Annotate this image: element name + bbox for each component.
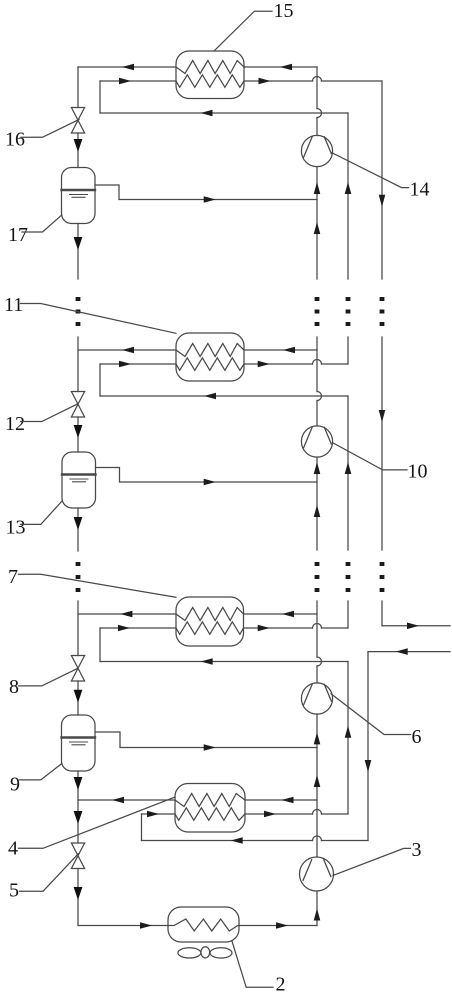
svg-text:17: 17 xyxy=(8,224,28,246)
flow arrow right xyxy=(119,78,131,85)
flow arrow left xyxy=(122,347,134,354)
svg-text:12: 12 xyxy=(5,413,25,435)
wire: interstage return line y=396 xyxy=(100,395,348,397)
break dots line x=317 xyxy=(315,297,320,326)
svg-text:4: 4 xyxy=(8,838,18,860)
flow arrow left xyxy=(204,393,216,400)
wire: tank 17 liquid outlet down xyxy=(77,224,79,280)
wire: compressor 14 discharge riser xyxy=(316,67,318,109)
wire: condensate drop to valve 16 xyxy=(77,67,79,108)
heat exchanger 4 (economizer heat exchanger) body xyxy=(175,784,245,833)
wire: valve 5 down to evaporator xyxy=(77,869,79,926)
leader line 11 xyxy=(21,304,177,334)
wire: water return line y=840.5 xyxy=(142,840,313,842)
heat exchanger 2 coil xyxy=(168,919,239,931)
heat exchanger 11 lower coil xyxy=(176,358,244,371)
flow arrow down xyxy=(74,777,83,790)
flow arrow up xyxy=(314,462,321,474)
wire: HX15 second line left xyxy=(100,80,176,82)
heat exchanger 7 upper coil xyxy=(176,608,244,621)
leader line 3 xyxy=(333,848,411,875)
wire: warm water downcomer x=382 xyxy=(381,81,383,279)
flow arrow right xyxy=(276,922,288,929)
wire: into evaporator 2 xyxy=(78,925,168,927)
wire: HX11 second line right xyxy=(244,363,313,365)
wire: x=317 from break to HX11 junction xyxy=(316,337,318,350)
leader line 2 xyxy=(232,941,273,988)
wire hop xyxy=(317,109,322,118)
svg-text:14: 14 xyxy=(410,179,430,201)
svg-text:2: 2 xyxy=(276,974,286,996)
flow arrow right xyxy=(264,811,276,818)
leader line 17 xyxy=(22,215,62,232)
heat exchanger 7 (cascade heat exchanger) body xyxy=(176,597,244,646)
wire: left line stage2 xyxy=(77,337,79,392)
leader line 4 xyxy=(19,797,176,848)
compressor 3 xyxy=(300,857,334,891)
wire hop xyxy=(313,810,322,815)
break dots left line xyxy=(76,297,81,326)
wire: left loop riser stage3 xyxy=(99,628,101,662)
flow arrow right xyxy=(204,744,216,751)
svg-text:7: 7 xyxy=(8,566,18,588)
svg-text:6: 6 xyxy=(412,726,422,748)
svg-text:5: 5 xyxy=(9,880,19,902)
flow arrow down xyxy=(74,425,83,438)
break dots line x=382 xyxy=(380,297,385,326)
flow arrow right xyxy=(258,625,270,632)
leader line 9 xyxy=(20,764,62,780)
flow arrow left xyxy=(282,611,294,618)
flow arrow left xyxy=(122,64,134,71)
wire: inlet downcomer x=368 xyxy=(367,652,369,841)
heat exchanger 15 lower coil xyxy=(176,75,244,88)
wire: downcomer to outlet xyxy=(381,601,383,626)
flow arrow left xyxy=(231,837,243,844)
wire: evaporator 2 outlet xyxy=(239,925,317,927)
wire: valve 16 to tank 17 xyxy=(77,133,79,168)
heat exchanger 4 upper coil xyxy=(175,794,245,807)
wire hop xyxy=(313,624,322,629)
heat exchanger 15 upper coil xyxy=(176,61,244,74)
flow arrow right xyxy=(147,811,159,818)
flow arrow down xyxy=(74,811,83,824)
heat exchanger 15 (cascade condenser) body xyxy=(176,51,244,99)
break dots x=382 2 xyxy=(380,562,385,592)
wire: x=348 from break to HX11 corner xyxy=(347,337,349,364)
wire: downcomer x=382 stage2 xyxy=(381,337,383,550)
svg-text:13: 13 xyxy=(6,517,26,539)
wire: compressor 6 discharge riser xyxy=(316,601,318,657)
fan of air cooler 2 xyxy=(178,947,232,958)
wire: x=348 from break to HX7 corner xyxy=(347,601,349,628)
flow arrow right xyxy=(204,479,216,486)
break dots left line 2 xyxy=(76,562,81,592)
wire: HX15 second line right xyxy=(244,80,313,82)
wire hop xyxy=(317,392,322,401)
compressor 6 xyxy=(301,683,332,714)
wire: interstage return line y=113 xyxy=(100,112,348,114)
expansion valve 16 xyxy=(71,108,84,134)
heat exchanger 2 (air evaporator) body xyxy=(168,907,239,942)
leader line 14 xyxy=(332,153,409,188)
flow arrow left xyxy=(280,64,292,71)
flow arrow down xyxy=(74,237,83,250)
flow arrow up xyxy=(314,732,321,744)
wire hop xyxy=(313,360,322,364)
svg-text:10: 10 xyxy=(408,461,428,483)
leader line 7 xyxy=(19,574,177,597)
wire: HX11 top line left xyxy=(78,349,176,351)
svg-text:8: 8 xyxy=(9,676,19,698)
flow arrow down xyxy=(365,760,372,772)
wire: HX4 second line right xyxy=(245,813,313,815)
expansion valve 8 xyxy=(71,656,84,682)
flow arrow right (outlet) xyxy=(407,623,419,630)
flow arrow left xyxy=(283,347,295,354)
leader line 6 xyxy=(331,694,411,735)
wire: left loop riser stage2 xyxy=(99,364,101,396)
wire: left line stage3 xyxy=(77,601,79,656)
wire: external inlet line xyxy=(368,651,450,653)
wire: tank 13 vapor line xyxy=(96,468,318,483)
wire: HX15 top line left xyxy=(78,66,176,68)
svg-text:11: 11 xyxy=(4,294,23,316)
flow arrow down xyxy=(74,139,83,152)
wire: interstage riser x=348 stage2 xyxy=(347,396,349,550)
wire: compressor 3 suction riser xyxy=(316,891,318,926)
wire: interstage return line y=661.5 xyxy=(100,661,348,663)
expansion valve 5 xyxy=(71,843,84,869)
flow arrow up xyxy=(345,182,352,194)
leader line 12 xyxy=(21,404,78,422)
flow arrow left xyxy=(282,797,294,804)
flow arrow down xyxy=(74,887,83,900)
heat exchanger 11 (cascade heat exchanger) body xyxy=(176,333,244,381)
flow arrow up xyxy=(314,222,321,234)
flow arrow right xyxy=(258,361,270,368)
flow arrow up xyxy=(314,775,321,787)
wire: tank 9 vapor line xyxy=(96,732,318,748)
break dots line x=348 xyxy=(346,297,351,326)
svg-text:16: 16 xyxy=(5,129,25,151)
wire: HX7 top line left xyxy=(78,613,176,615)
flow arrow right xyxy=(119,361,131,368)
heat exchanger 11 upper coil xyxy=(176,344,244,357)
flow arrow left xyxy=(112,797,124,804)
separator tank 9 xyxy=(62,715,96,771)
wire hop xyxy=(317,657,322,666)
flow arrow right xyxy=(204,196,216,203)
leader line 10 xyxy=(333,443,407,470)
wire: interstage riser x=348 stage3 xyxy=(347,662,349,815)
wire: HX7 second line right xyxy=(244,627,313,629)
wire: compressor 10 suction line xyxy=(316,457,318,550)
flow arrow right xyxy=(118,625,130,632)
separator tank 13 xyxy=(62,452,96,508)
wire: interstage riser x=348 xyxy=(347,113,349,279)
flow arrow left (inlet) xyxy=(396,648,408,655)
wire: HX4 second line left xyxy=(142,813,176,815)
heat exchanger 4 lower coil xyxy=(175,808,245,821)
flow arrow down xyxy=(74,517,83,530)
flow arrow up xyxy=(345,462,352,474)
flow arrow left xyxy=(201,658,213,665)
wire: compressor 14 suction line xyxy=(316,167,318,280)
wire: HX4 top line left xyxy=(78,799,175,801)
wire: tank 17 vapor line to compressor suction xyxy=(95,185,317,200)
expansion valve 12 xyxy=(71,392,84,418)
flow arrow left xyxy=(201,110,213,117)
flow arrow right xyxy=(140,922,152,929)
flow arrow up xyxy=(314,909,321,921)
svg-text:3: 3 xyxy=(412,839,422,861)
wire: tank 9 liquid outlet down xyxy=(77,771,79,843)
wire: compressor 10 discharge riser xyxy=(316,350,318,392)
wire: external outlet line xyxy=(382,625,450,627)
leader line 16 xyxy=(21,120,79,138)
wire: valve 8 to tank 9 xyxy=(77,681,79,715)
wire: HX7 second line left xyxy=(100,627,176,629)
flow arrow right xyxy=(259,78,271,85)
leader line 13 xyxy=(21,501,63,525)
leader line 15 xyxy=(215,11,272,50)
flow arrow up xyxy=(314,182,321,194)
wire: left loop riser stage1 xyxy=(99,81,101,113)
leader line 8 xyxy=(19,669,78,686)
flow arrow down xyxy=(379,195,386,207)
leader line 5 xyxy=(20,854,79,891)
wire: HX7 top line right xyxy=(244,613,318,615)
break dots x=348 2 xyxy=(346,562,351,592)
wire: compressor 6 suction / compressor 3 discharge line xyxy=(316,714,318,857)
wire: HX11 second line left xyxy=(100,363,176,365)
svg-text:15: 15 xyxy=(274,0,294,22)
svg-text:9: 9 xyxy=(10,774,20,796)
flow arrow left xyxy=(120,611,132,618)
separator tank 17 xyxy=(62,168,96,224)
wire: HX4 top line right xyxy=(245,799,317,801)
flow arrow down xyxy=(379,410,386,422)
wire: HX15 top line right xyxy=(244,66,317,68)
break dots x=317 2 xyxy=(315,562,320,592)
compressor 10 xyxy=(301,426,332,457)
heat exchanger 7 lower coil xyxy=(176,622,244,635)
wire: valve 12 to tank 13 xyxy=(77,417,79,452)
compressor 14 xyxy=(301,135,332,166)
wire hop xyxy=(313,836,322,840)
wire: tank 13 liquid outlet down xyxy=(77,508,79,551)
wire: HX11 top line right xyxy=(244,349,317,351)
flow arrow up xyxy=(314,505,321,517)
wire: HX4 loop riser xyxy=(141,814,143,841)
flow arrow up xyxy=(345,726,352,738)
flow arrow down xyxy=(74,690,83,703)
wire hop xyxy=(313,77,322,82)
